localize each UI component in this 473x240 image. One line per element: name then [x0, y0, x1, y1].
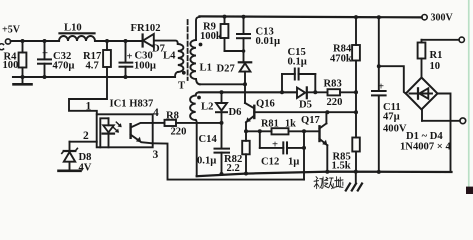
svg-text:L10: L10: [64, 23, 82, 34]
svg-text:T: T: [178, 81, 185, 92]
svg-text:D1 ~ D4: D1 ~ D4: [406, 131, 443, 142]
node base line to R84 line: [354, 110, 358, 114]
capacitor C15: [282, 47, 315, 92]
node R84 top: [354, 15, 358, 19]
resistor R83: [324, 79, 357, 109]
node Q16 emitter / R81 / R82: [244, 129, 248, 133]
resistor R17: [83, 41, 111, 77]
node C15 right: [313, 90, 317, 94]
svg-text:4.7: 4.7: [86, 61, 100, 72]
node C11 top: [377, 15, 381, 19]
resistor R4: [3, 41, 27, 77]
svg-text:D5: D5: [299, 100, 312, 111]
node L1-D27 junction: [243, 82, 247, 86]
terminal +5V: [2, 25, 21, 45]
node C14 bottom: [220, 172, 224, 176]
svg-text:100: 100: [3, 60, 19, 71]
wire L1 bottom to D27 line: [200, 83, 245, 85]
svg-text:L4: L4: [163, 51, 176, 62]
capacitor C12: [260, 131, 304, 167]
wire top rail 300V bus: [200, 16, 422, 17]
node L1 polarity dot: [199, 43, 203, 47]
node R9 top: [223, 15, 227, 19]
capacitor C32: [38, 41, 75, 77]
node R17 top: [105, 39, 109, 43]
node C13 top: [242, 15, 246, 19]
svg-text:R8: R8: [166, 111, 179, 122]
svg-text:L1: L1: [200, 63, 212, 74]
svg-text:+: +: [378, 82, 384, 93]
resistor R82: [224, 131, 250, 174]
svg-text:400V: 400V: [383, 124, 407, 135]
wire top-left rail: [11, 40, 59, 42]
svg-text:2.2: 2.2: [227, 163, 240, 174]
transistor Q16: [245, 99, 275, 132]
IC1 phototransistor: [131, 123, 153, 143]
node R4 top: [21, 39, 25, 43]
wire D7 to L4: [154, 41, 178, 44]
svg-text:D6: D6: [229, 107, 242, 118]
wire D27 line down across rail to Q16 collector: [244, 84, 246, 103]
svg-text:R81: R81: [261, 119, 279, 130]
node C32 top: [43, 39, 47, 43]
svg-text:R83: R83: [324, 79, 342, 90]
node C30 top: [124, 39, 128, 43]
svg-text:L2: L2: [201, 102, 213, 113]
resistor R9: [200, 17, 244, 51]
zener diode D8: [59, 142, 92, 174]
node C11 bottom: [377, 170, 381, 174]
wire primary ground rail: [197, 172, 452, 177]
svg-text:220: 220: [171, 127, 187, 138]
node R4 bottom: [21, 75, 25, 79]
svg-text:10: 10: [430, 61, 441, 72]
dark scan corner bottom right: [466, 187, 473, 194]
svg-text:C12: C12: [261, 157, 279, 168]
svg-text:R1: R1: [430, 50, 443, 61]
IC1 LED: [103, 118, 114, 147]
bridge rectifier D1-D4: [400, 78, 451, 153]
node C30 bottom: [124, 75, 128, 79]
node C12 left: [258, 129, 262, 133]
green scan strip right edge: [468, 0, 470, 187]
wire secondary rail y92: [199, 91, 296, 93]
svg-text:470k: 470k: [330, 54, 352, 65]
transformer winding L2: [190, 92, 213, 123]
svg-text:47µ: 47µ: [383, 112, 400, 123]
node R83-R84 junction: [354, 90, 358, 94]
svg-text:0.1µ: 0.1µ: [288, 57, 307, 68]
wire bridge right vertex down: [438, 94, 451, 173]
diode D5: [297, 87, 328, 110]
svg-text:4: 4: [153, 107, 159, 119]
svg-text:470µ: 470µ: [53, 61, 75, 72]
svg-text:0.01µ: 0.01µ: [256, 36, 281, 47]
terminal AC line 2: [422, 110, 466, 124]
wire pin1 staircase from bottom rail: [69, 77, 107, 114]
svg-text:+: +: [42, 49, 48, 60]
svg-text:1k: 1k: [285, 119, 296, 130]
node L4 polarity dot: [182, 71, 186, 75]
wire C11 to bridge left vertex: [379, 66, 406, 93]
resistor R8: [153, 111, 222, 138]
optocoupler IC1 H837 box: [97, 99, 154, 148]
svg-text:+: +: [272, 140, 278, 151]
diode D7 FR102: [131, 23, 166, 55]
node Q17 emitter bottom: [325, 170, 329, 174]
wire Q16 base line: [254, 111, 356, 113]
capacitor C30: [120, 41, 157, 77]
svg-text:3: 3: [153, 149, 159, 161]
node C11 branch: [377, 64, 381, 68]
capacitor C14: [197, 134, 229, 175]
svg-text:100µ: 100µ: [134, 61, 156, 72]
svg-text:100k: 100k: [200, 31, 222, 42]
label primary ground (chinese): [314, 177, 343, 189]
svg-text:1µ: 1µ: [288, 157, 299, 168]
svg-text:4V: 4V: [79, 163, 92, 174]
wire R84 node down: [355, 92, 357, 112]
node R85 bottom: [354, 170, 358, 174]
svg-text:1.5k: 1.5k: [332, 161, 351, 172]
svg-text:D27: D27: [217, 64, 236, 75]
diode D27: [217, 62, 252, 84]
svg-text:1N4007 × 4: 1N4007 × 4: [400, 142, 451, 153]
node D6-R8 junction: [220, 121, 224, 125]
inductor L10: [59, 23, 95, 42]
ground left: [14, 77, 32, 84]
node C15 left: [280, 90, 284, 94]
IC1 light arrows: [114, 122, 122, 133]
transformer core: [187, 20, 189, 80]
terminal 300V: [422, 13, 454, 24]
node Q17 collector junction: [325, 110, 329, 114]
svg-text:220: 220: [327, 97, 343, 108]
node R82 bottom: [244, 172, 248, 176]
capacitor C13: [237, 17, 280, 63]
svg-text:C14: C14: [199, 134, 218, 145]
wire pin2 to D8: [70, 141, 97, 143]
svg-text:D8: D8: [79, 152, 92, 163]
ground primary (hatched): [346, 172, 362, 191]
wire bottom-left rail: [13, 76, 175, 78]
node R9-C13 junction: [242, 49, 246, 53]
node L2 polarity dot: [197, 96, 201, 100]
resistor R1: [418, 40, 443, 78]
node D6 top: [220, 90, 224, 94]
svg-text:+5V: +5V: [2, 25, 21, 36]
svg-text:Q16: Q16: [256, 99, 275, 110]
wire C12 right down to return line: [303, 131, 305, 179]
capacitor C11: [372, 17, 407, 173]
wire rail L10 to D7: [95, 40, 144, 42]
wire pin3 down and return line: [153, 143, 304, 179]
diode D6: [216, 92, 241, 148]
svg-text:Q17: Q17: [301, 115, 321, 126]
node C12 right top: [302, 129, 306, 133]
terminal AC line 1: [422, 37, 465, 42]
svg-text:IC1 H837: IC1 H837: [110, 99, 155, 110]
svg-text:2: 2: [83, 130, 89, 142]
left edge artifact: [0, 44, 4, 50]
transformer T primary L4: [163, 44, 183, 77]
svg-text:FR102: FR102: [131, 23, 161, 34]
IC1 LED inner bracket: [100, 118, 108, 147]
svg-text:+: +: [127, 52, 133, 63]
resistor R84: [330, 17, 360, 92]
node C12 right row junction: [302, 146, 306, 150]
wire L2 bottom to primary ground rail: [196, 123, 198, 176]
transformer winding L1: [178, 17, 212, 92]
resistor R85: [332, 112, 360, 172]
resistor R81: [246, 119, 320, 135]
node C32 bottom: [43, 75, 47, 79]
svg-text:0.1µ: 0.1µ: [197, 156, 216, 167]
svg-text:300V: 300V: [431, 13, 454, 24]
transistor Q17: [301, 112, 327, 172]
